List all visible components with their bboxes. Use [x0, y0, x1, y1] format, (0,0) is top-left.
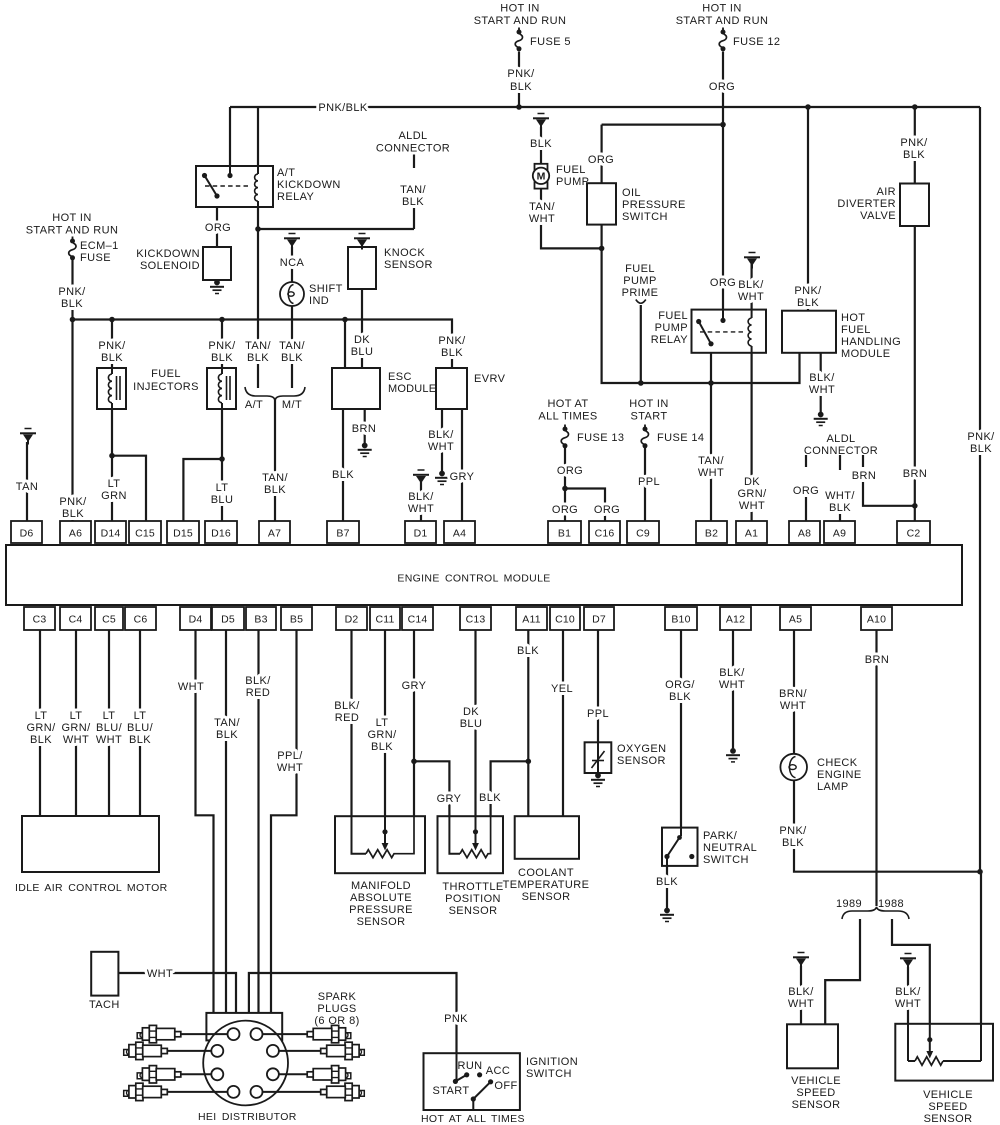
svg-text:B3: B3	[254, 614, 267, 626]
svg-text:BLK/: BLK/	[719, 667, 745, 679]
svg-text:ORG: ORG	[710, 277, 736, 289]
svg-text:PPL: PPL	[638, 476, 660, 488]
svg-text:CONNECTOR: CONNECTOR	[804, 445, 878, 457]
svg-text:ORG: ORG	[205, 222, 231, 234]
svg-text:LT: LT	[216, 482, 229, 494]
svg-text:SOLENOID: SOLENOID	[140, 260, 200, 272]
svg-text:WHT: WHT	[698, 467, 724, 479]
svg-text:BLK: BLK	[332, 469, 354, 481]
svg-text:PNK/: PNK/	[794, 285, 822, 297]
svg-text:RUN: RUN	[457, 1060, 482, 1072]
svg-text:PLUGS: PLUGS	[317, 1003, 356, 1015]
svg-text:PNK/: PNK/	[779, 825, 807, 837]
svg-text:BLU: BLU	[460, 718, 483, 730]
svg-text:WHT: WHT	[895, 998, 921, 1010]
svg-text:SWITCH: SWITCH	[622, 211, 668, 223]
svg-text:BLK: BLK	[211, 352, 233, 364]
svg-text:BLK: BLK	[829, 502, 851, 514]
svg-text:WHT: WHT	[277, 762, 303, 774]
svg-text:NEUTRAL: NEUTRAL	[703, 842, 757, 854]
svg-text:B10: B10	[671, 614, 690, 626]
svg-text:LT: LT	[70, 710, 83, 722]
svg-text:D2: D2	[345, 614, 359, 626]
svg-text:BLK: BLK	[216, 729, 238, 741]
svg-text:B5: B5	[290, 614, 303, 626]
svg-text:OFF: OFF	[494, 1080, 517, 1092]
svg-text:D4: D4	[189, 614, 203, 626]
svg-text:BLK: BLK	[797, 297, 819, 309]
svg-text:PNK/: PNK/	[967, 431, 995, 443]
svg-text:GRN/: GRN/	[367, 729, 397, 741]
svg-text:PARK/: PARK/	[703, 830, 738, 842]
svg-text:BLK: BLK	[62, 508, 84, 520]
svg-text:TAN/: TAN/	[698, 455, 724, 467]
svg-text:PNK/: PNK/	[58, 286, 86, 298]
svg-text:GRY: GRY	[450, 471, 475, 483]
svg-text:WHT: WHT	[780, 700, 806, 712]
svg-text:BLK/: BLK/	[408, 491, 434, 503]
svg-text:PUMP: PUMP	[623, 275, 656, 287]
svg-text:BLK: BLK	[281, 352, 303, 364]
svg-text:PNK/: PNK/	[59, 496, 87, 508]
svg-text:BLU: BLU	[351, 346, 374, 358]
svg-text:SENSOR: SENSOR	[449, 905, 498, 917]
svg-text:D5: D5	[221, 614, 235, 626]
svg-text:SENSOR: SENSOR	[522, 891, 571, 903]
svg-text:CONNECTOR: CONNECTOR	[376, 143, 450, 155]
svg-text:A12: A12	[726, 614, 745, 626]
svg-text:A10: A10	[867, 614, 886, 626]
svg-text:HANDLING: HANDLING	[841, 336, 901, 348]
svg-text:ACC: ACC	[486, 1065, 510, 1077]
svg-text:GRN/: GRN/	[61, 722, 91, 734]
svg-text:WHT: WHT	[719, 679, 745, 691]
svg-text:WHT: WHT	[529, 213, 555, 225]
svg-text:D16: D16	[211, 528, 231, 540]
svg-text:ORG/: ORG/	[665, 679, 695, 691]
svg-text:PNK/: PNK/	[900, 137, 928, 149]
svg-text:SWITCH: SWITCH	[526, 1068, 572, 1080]
svg-text:BLK: BLK	[510, 81, 532, 93]
svg-text:D1: D1	[414, 528, 428, 540]
svg-text:C16: C16	[595, 528, 615, 540]
svg-text:M/T: M/T	[282, 399, 302, 411]
svg-text:TAN/: TAN/	[262, 472, 288, 484]
svg-text:LT: LT	[134, 710, 147, 722]
svg-text:FUEL: FUEL	[841, 324, 871, 336]
svg-text:GRY: GRY	[402, 680, 427, 692]
svg-text:HOT IN: HOT IN	[629, 398, 668, 410]
svg-text:FUSE 12: FUSE 12	[733, 36, 780, 48]
svg-text:START AND RUN: START AND RUN	[474, 15, 567, 27]
svg-text:B2: B2	[705, 528, 718, 540]
svg-text:PUMP: PUMP	[556, 176, 589, 188]
svg-text:BLK: BLK	[30, 734, 52, 746]
svg-text:ORG: ORG	[793, 485, 819, 497]
svg-text:GRN: GRN	[101, 490, 127, 502]
svg-text:IND: IND	[309, 295, 329, 307]
svg-text:SPARK: SPARK	[318, 991, 357, 1003]
svg-text:ESC: ESC	[388, 371, 412, 383]
svg-text:VALVE: VALVE	[860, 210, 896, 222]
svg-text:D15: D15	[173, 528, 193, 540]
svg-text:C13: C13	[466, 614, 486, 626]
svg-text:WHT: WHT	[738, 291, 764, 303]
svg-text:TAN/: TAN/	[245, 340, 271, 352]
svg-text:SENSOR: SENSOR	[384, 259, 433, 271]
svg-text:EVRV: EVRV	[474, 373, 506, 385]
svg-text:C11: C11	[375, 614, 394, 626]
svg-text:PPL: PPL	[587, 708, 609, 720]
svg-text:A/T: A/T	[277, 167, 295, 179]
svg-text:WHT: WHT	[147, 968, 173, 980]
svg-text:MANIFOLD: MANIFOLD	[351, 880, 411, 892]
svg-text:BLK: BLK	[247, 352, 269, 364]
svg-text:TAN/: TAN/	[279, 340, 305, 352]
svg-text:C10: C10	[555, 614, 575, 626]
svg-text:BLK/: BLK/	[788, 986, 814, 998]
svg-text:ORG: ORG	[709, 81, 735, 93]
svg-text:BRN: BRN	[903, 468, 927, 480]
svg-text:TAN/: TAN/	[529, 201, 555, 213]
svg-text:SPEED: SPEED	[928, 1101, 967, 1113]
svg-text:D6: D6	[20, 528, 34, 540]
svg-text:BLK: BLK	[782, 837, 804, 849]
svg-text:ALDL: ALDL	[826, 433, 855, 445]
svg-text:POSITION: POSITION	[445, 893, 501, 905]
svg-text:KNOCK: KNOCK	[384, 247, 425, 259]
svg-text:BLK/: BLK/	[334, 700, 360, 712]
svg-text:BLK: BLK	[61, 298, 83, 310]
svg-text:WHT/: WHT/	[825, 490, 855, 502]
svg-text:LT: LT	[103, 710, 116, 722]
svg-text:PNK: PNK	[444, 1013, 468, 1025]
svg-text:HOT IN: HOT IN	[702, 3, 741, 15]
svg-text:LT: LT	[35, 710, 48, 722]
svg-text:BLK: BLK	[530, 138, 552, 150]
svg-text:BLK: BLK	[517, 645, 539, 657]
svg-text:WHT: WHT	[428, 441, 454, 453]
svg-text:TAN: TAN	[16, 481, 38, 493]
svg-text:BLK/: BLK/	[245, 675, 271, 687]
svg-text:SPEED: SPEED	[796, 1087, 835, 1099]
svg-text:C14: C14	[408, 614, 428, 626]
svg-text:PRESSURE: PRESSURE	[622, 199, 686, 211]
svg-text:AIR: AIR	[876, 186, 896, 198]
svg-text:SENSOR: SENSOR	[357, 916, 406, 928]
svg-text:A4: A4	[453, 528, 466, 540]
svg-text:1989: 1989	[836, 898, 862, 910]
svg-text:BLK: BLK	[441, 347, 463, 359]
svg-text:WHT: WHT	[96, 734, 122, 746]
svg-text:RELAY: RELAY	[277, 191, 315, 203]
svg-text:OIL: OIL	[622, 187, 641, 199]
svg-text:BLK: BLK	[371, 741, 393, 753]
svg-text:D14: D14	[101, 528, 121, 540]
svg-text:BLU/: BLU/	[96, 722, 123, 734]
svg-text:BRN/: BRN/	[779, 688, 807, 700]
svg-text:FUEL: FUEL	[556, 164, 586, 176]
svg-text:BLK: BLK	[669, 691, 691, 703]
svg-text:FUEL: FUEL	[151, 368, 181, 380]
svg-text:ALL TIMES: ALL TIMES	[538, 411, 597, 423]
svg-text:PNK/: PNK/	[208, 340, 236, 352]
svg-text:BLK: BLK	[129, 734, 151, 746]
svg-text:CHECK: CHECK	[817, 757, 858, 769]
svg-text:BRN: BRN	[865, 654, 889, 666]
svg-text:WHT: WHT	[408, 503, 434, 515]
svg-text:RED: RED	[335, 712, 359, 724]
svg-text:START AND RUN: START AND RUN	[676, 15, 769, 27]
svg-text:BLK/: BLK/	[895, 986, 921, 998]
svg-text:NCA: NCA	[280, 257, 305, 269]
svg-text:RED: RED	[246, 687, 270, 699]
svg-text:BLK/: BLK/	[738, 279, 764, 291]
svg-text:START: START	[630, 411, 667, 423]
svg-text:HOT AT ALL TIMES: HOT AT ALL TIMES	[421, 1113, 525, 1125]
svg-text:KICKDOWN: KICKDOWN	[136, 248, 200, 260]
svg-text:DK: DK	[744, 476, 760, 488]
svg-text:KICKDOWN: KICKDOWN	[277, 179, 341, 191]
svg-text:START: START	[432, 1085, 469, 1097]
svg-text:FUEL: FUEL	[625, 263, 655, 275]
svg-text:A1: A1	[745, 528, 758, 540]
svg-text:C2: C2	[907, 528, 921, 540]
svg-text:DK: DK	[463, 706, 479, 718]
svg-text:HOT IN: HOT IN	[500, 3, 539, 15]
svg-text:PRIME: PRIME	[622, 287, 659, 299]
svg-text:IGNITION: IGNITION	[526, 1056, 578, 1068]
svg-text:RELAY: RELAY	[651, 334, 689, 346]
svg-text:GRN/: GRN/	[737, 488, 767, 500]
svg-text:ORG: ORG	[588, 154, 614, 166]
svg-text:LT: LT	[376, 717, 389, 729]
svg-text:1988: 1988	[878, 898, 904, 910]
svg-text:HOT: HOT	[841, 312, 865, 324]
svg-text:PNK/BLK: PNK/BLK	[318, 102, 368, 114]
svg-text:PUMP: PUMP	[655, 322, 688, 334]
svg-text:BLK: BLK	[479, 792, 501, 804]
svg-text:SENSOR: SENSOR	[792, 1099, 841, 1111]
svg-text:C4: C4	[69, 614, 83, 626]
svg-text:PPL/: PPL/	[277, 750, 303, 762]
svg-text:BLK: BLK	[903, 149, 925, 161]
svg-text:SENSOR: SENSOR	[924, 1113, 973, 1125]
svg-text:SWITCH: SWITCH	[703, 854, 749, 866]
svg-text:HEI DISTRIBUTOR: HEI DISTRIBUTOR	[198, 1111, 297, 1123]
svg-text:TEMPERATURE: TEMPERATURE	[503, 879, 590, 891]
svg-text:C5: C5	[102, 614, 116, 626]
svg-text:LT: LT	[108, 478, 121, 490]
svg-text:VEHICLE: VEHICLE	[923, 1089, 973, 1101]
svg-text:A5: A5	[789, 614, 802, 626]
svg-text:BLK: BLK	[402, 196, 424, 208]
svg-text:BLK: BLK	[264, 484, 286, 496]
svg-text:DIVERTER: DIVERTER	[837, 198, 896, 210]
svg-text:C15: C15	[135, 528, 155, 540]
svg-text:D7: D7	[592, 614, 606, 626]
svg-text:BLK: BLK	[970, 443, 992, 455]
svg-text:ENGINE: ENGINE	[817, 769, 862, 781]
svg-text:IDLE AIR CONTROL MOTOR: IDLE AIR CONTROL MOTOR	[15, 882, 168, 894]
svg-text:FUSE 13: FUSE 13	[577, 432, 624, 444]
svg-text:THROTTLE: THROTTLE	[442, 881, 503, 893]
svg-text:OXYGEN: OXYGEN	[617, 743, 666, 755]
svg-text:A6: A6	[69, 528, 82, 540]
svg-text:WHT: WHT	[788, 998, 814, 1010]
svg-text:FUSE 14: FUSE 14	[657, 432, 704, 444]
svg-text:WHT: WHT	[63, 734, 89, 746]
svg-text:SENSOR: SENSOR	[617, 755, 666, 767]
svg-text:TACH: TACH	[89, 999, 120, 1011]
svg-text:FUSE: FUSE	[80, 252, 111, 264]
svg-text:BRN: BRN	[852, 470, 876, 482]
svg-text:BLK/: BLK/	[809, 372, 835, 384]
svg-text:HOT AT: HOT AT	[547, 398, 588, 410]
svg-text:A7: A7	[268, 528, 281, 540]
svg-text:ABSOLUTE: ABSOLUTE	[350, 892, 412, 904]
svg-text:YEL: YEL	[551, 683, 573, 695]
svg-text:BLU: BLU	[211, 494, 234, 506]
svg-text:TAN/: TAN/	[400, 184, 426, 196]
svg-text:ALDL: ALDL	[398, 130, 427, 142]
svg-text:PNK/: PNK/	[438, 335, 466, 347]
svg-text:FUSE 5: FUSE 5	[530, 36, 571, 48]
svg-text:GRN/: GRN/	[26, 722, 56, 734]
svg-text:GRY: GRY	[437, 793, 462, 805]
svg-text:DK: DK	[354, 334, 370, 346]
svg-text:C9: C9	[636, 528, 650, 540]
svg-text:PNK/: PNK/	[507, 68, 535, 80]
svg-text:BRN: BRN	[352, 423, 376, 435]
svg-text:INJECTORS: INJECTORS	[133, 381, 199, 393]
svg-text:C6: C6	[134, 614, 148, 626]
svg-text:ORG: ORG	[552, 504, 578, 516]
svg-text:BLK/: BLK/	[428, 429, 454, 441]
svg-text:ENGINE CONTROL MODULE: ENGINE CONTROL MODULE	[397, 573, 550, 585]
svg-text:MODULE: MODULE	[388, 383, 436, 395]
svg-text:B7: B7	[336, 528, 349, 540]
svg-text:C3: C3	[33, 614, 47, 626]
svg-text:WHT: WHT	[809, 384, 835, 396]
svg-text:PRESSURE: PRESSURE	[349, 904, 413, 916]
svg-text:ORG: ORG	[594, 504, 620, 516]
svg-text:BLK: BLK	[101, 352, 123, 364]
svg-text:TAN/: TAN/	[214, 717, 240, 729]
svg-text:LAMP: LAMP	[817, 781, 849, 793]
svg-text:SHIFT: SHIFT	[309, 283, 343, 295]
svg-text:A9: A9	[833, 528, 846, 540]
svg-text:ORG: ORG	[557, 465, 583, 477]
svg-text:(6 OR 8): (6 OR 8)	[314, 1015, 359, 1027]
svg-text:VEHICLE: VEHICLE	[791, 1075, 841, 1087]
svg-text:WHT: WHT	[178, 681, 204, 693]
svg-text:FUEL: FUEL	[658, 310, 688, 322]
svg-text:COOLANT: COOLANT	[518, 867, 574, 879]
svg-text:A/T: A/T	[245, 399, 263, 411]
svg-text:BLK: BLK	[656, 876, 678, 888]
svg-text:PNK/: PNK/	[98, 340, 126, 352]
svg-text:A11: A11	[522, 614, 541, 626]
svg-text:B1: B1	[558, 528, 571, 540]
svg-text:A8: A8	[798, 528, 811, 540]
svg-text:HOT IN: HOT IN	[52, 212, 91, 224]
svg-text:M: M	[537, 171, 546, 183]
svg-text:START AND RUN: START AND RUN	[26, 225, 119, 237]
svg-text:MODULE: MODULE	[841, 348, 890, 360]
svg-text:WHT: WHT	[739, 500, 765, 512]
svg-text:BLU/: BLU/	[127, 722, 154, 734]
svg-text:ECM–1: ECM–1	[80, 240, 119, 252]
